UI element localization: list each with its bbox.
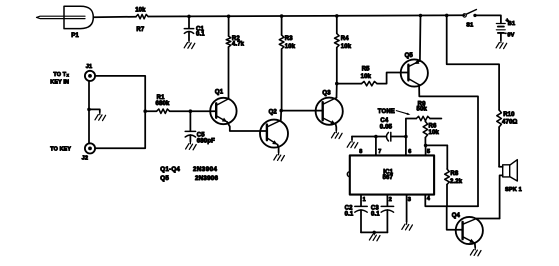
transistor Q5 [401, 53, 428, 87]
capacitor C5 [185, 111, 215, 144]
svg-text:5: 5 [427, 149, 430, 155]
resistor R8 [445, 145, 463, 206]
junction [445, 14, 449, 18]
capacitor C1 [184, 16, 205, 40]
pin 6 label [408, 149, 411, 155]
junction [335, 14, 339, 18]
junction [372, 231, 376, 235]
transistor Q1 [210, 90, 236, 125]
resistor R1 [145, 95, 190, 113]
ground [347, 140, 358, 148]
junction [335, 82, 339, 86]
label TO Tx KEY IN [50, 72, 69, 86]
wire [88, 81, 90, 144]
svg-text:C4: C4 [380, 118, 388, 124]
svg-text:R7: R7 [136, 27, 144, 33]
resistor R10 [497, 110, 518, 167]
svg-text:Q1-Q4: Q1-Q4 [160, 166, 180, 173]
svg-text:Q2: Q2 [269, 109, 278, 115]
switch S1 [463, 10, 477, 29]
jack J1 [85, 64, 95, 81]
svg-text:Q4: Q4 [452, 213, 461, 219]
svg-text:-: - [505, 31, 507, 37]
svg-text:J1: J1 [86, 64, 93, 70]
svg-text:10k: 10k [361, 74, 372, 80]
wire [361, 231, 387, 233]
svg-text:2N3906: 2N3906 [195, 175, 218, 182]
svg-text:Q1: Q1 [215, 90, 224, 96]
transistor Q4 [452, 213, 483, 244]
svg-text:R6: R6 [429, 124, 437, 130]
svg-text:R8: R8 [450, 171, 458, 177]
svg-text:Q5: Q5 [160, 175, 169, 182]
junction [279, 109, 283, 113]
ground [369, 232, 380, 240]
wire [477, 218, 500, 220]
svg-text:2.2k: 2.2k [450, 179, 463, 185]
transistor Q3 [316, 90, 343, 124]
svg-text:B1: B1 [508, 21, 515, 27]
label transistor types [160, 166, 218, 182]
capacitor C3 [371, 195, 394, 233]
ground [496, 40, 507, 48]
pin 2 label [389, 197, 392, 203]
svg-text:567: 567 [383, 175, 394, 181]
label TONE [378, 109, 411, 115]
svg-text:C5: C5 [197, 132, 205, 138]
svg-text:R4: R4 [341, 36, 349, 42]
svg-text:J2: J2 [82, 155, 89, 161]
wire [425, 145, 427, 155]
svg-text:680pF: 680pF [197, 139, 215, 145]
wire [447, 206, 463, 230]
pin 3 label [408, 197, 411, 203]
speaker SPK1 [499, 160, 522, 219]
wire [406, 195, 408, 222]
ground [332, 130, 343, 138]
pin 7 label [378, 149, 381, 155]
svg-text:0.1: 0.1 [371, 211, 380, 217]
svg-text:R5: R5 [362, 66, 370, 72]
wire [351, 137, 353, 140]
wire [474, 243, 476, 247]
ground [184, 40, 195, 48]
junction [227, 14, 231, 18]
svg-text:S1: S1 [466, 22, 473, 28]
svg-text:TONE: TONE [378, 109, 395, 115]
svg-text:P1: P1 [71, 33, 79, 39]
junction [404, 135, 408, 139]
resistor R6 [423, 120, 439, 146]
svg-text:8: 8 [359, 149, 362, 155]
svg-text:SPK 1: SPK 1 [505, 187, 522, 193]
battery B1 [496, 18, 515, 40]
svg-text:3: 3 [408, 197, 411, 203]
svg-text:1: 1 [363, 197, 366, 203]
resistor R4 [335, 16, 352, 84]
potentiometer R9 [406, 102, 442, 137]
wire [336, 84, 338, 98]
wire [89, 109, 100, 112]
svg-text:6: 6 [408, 149, 411, 155]
label TO KEY [50, 147, 71, 153]
svg-text:4: 4 [427, 196, 430, 202]
wire [425, 195, 478, 207]
svg-text:680k: 680k [156, 101, 170, 107]
wire [93, 16, 136, 19]
ground [470, 247, 481, 255]
wire [190, 110, 216, 112]
svg-text:Q5: Q5 [405, 53, 414, 59]
transistor Q2 [260, 109, 288, 147]
wire [447, 15, 499, 110]
ground [274, 152, 285, 160]
svg-text:TO KEY: TO KEY [50, 147, 71, 153]
ground [402, 222, 413, 230]
svg-text:R10: R10 [503, 112, 515, 118]
svg-text:50k: 50k [417, 107, 428, 113]
wire [278, 145, 279, 153]
ground [186, 141, 197, 149]
svg-text:10k: 10k [429, 130, 440, 136]
ground [95, 112, 106, 120]
wire [227, 122, 267, 131]
resistor R2 [226, 16, 244, 98]
wire [477, 15, 501, 23]
svg-text:10k: 10k [135, 7, 146, 13]
resistor R5 [337, 66, 409, 85]
wire [405, 137, 407, 156]
probe P1 [37, 6, 94, 39]
svg-text:10k: 10k [341, 44, 352, 50]
svg-text:x: x [67, 73, 70, 78]
svg-text:0.1: 0.1 [345, 211, 354, 217]
resistor R7 [135, 7, 148, 33]
op-amp U1 IC1 567 [347, 155, 434, 194]
svg-text:2: 2 [389, 197, 392, 203]
wire [95, 76, 145, 148]
junction [424, 144, 428, 148]
wire [419, 85, 478, 207]
junction [87, 108, 91, 112]
jack J2 [82, 143, 96, 161]
junction [419, 14, 423, 18]
svg-text:0.1: 0.1 [196, 32, 205, 38]
wire [281, 110, 323, 112]
svg-text:2N3904: 2N3904 [193, 166, 217, 173]
pin 8 label [359, 149, 362, 155]
junction [143, 109, 147, 113]
junction [187, 15, 191, 19]
wire [419, 16, 422, 61]
wire [148, 15, 464, 16]
svg-text:R3: R3 [285, 36, 293, 42]
junction [374, 135, 378, 139]
svg-text:470Ω: 470Ω [502, 120, 517, 126]
junction [189, 109, 193, 113]
wire [426, 144, 448, 146]
wire [335, 124, 338, 130]
svg-text:10k: 10k [285, 44, 296, 50]
wire [280, 111, 282, 121]
junction [280, 14, 284, 18]
pin 4 label [427, 196, 430, 202]
pin 5 label [427, 149, 430, 155]
svg-text:KEY IN: KEY IN [50, 79, 69, 85]
svg-text:Q3: Q3 [322, 90, 331, 96]
pin 1 label [363, 197, 366, 203]
wire [375, 137, 377, 156]
svg-text:0.05: 0.05 [380, 125, 393, 131]
svg-text:9V: 9V [507, 33, 514, 39]
svg-text:TO T: TO T [53, 72, 66, 78]
resistor R3 [279, 16, 295, 111]
svg-text:7: 7 [378, 149, 381, 155]
capacitor C2 [345, 195, 368, 233]
capacitor C4 [352, 118, 406, 141]
svg-text:4.7k: 4.7k [232, 42, 245, 48]
